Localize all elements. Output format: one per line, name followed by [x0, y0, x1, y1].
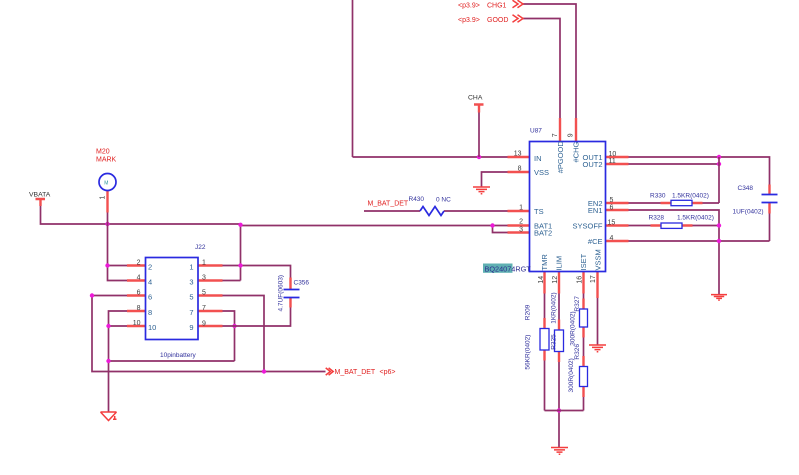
svg-text:1: 1: [100, 196, 107, 200]
svg-text:M_BAT_DET: M_BAT_DET: [335, 369, 376, 376]
svg-text:C348: C348: [738, 185, 754, 192]
svg-text:1: 1: [519, 204, 523, 211]
svg-text:7: 7: [552, 133, 559, 137]
svg-text:1: 1: [202, 260, 206, 267]
svg-text:2: 2: [137, 259, 141, 266]
resistor R328 body: [661, 223, 682, 228]
pin stub M20: [106, 191, 108, 213]
ground VSS net: [473, 187, 490, 194]
svg-text:IN: IN: [534, 154, 542, 163]
svg-text:1UF(0402): 1UF(0402): [733, 208, 764, 215]
wire J22 pin7 down: [223, 311, 235, 361]
svg-text:M_BAT_DET: M_BAT_DET: [368, 200, 409, 207]
svg-text:VSS: VSS: [534, 168, 549, 177]
svg-text:TS: TS: [534, 207, 544, 216]
svg-text:J22: J22: [195, 244, 206, 251]
svg-text:3: 3: [189, 277, 193, 286]
svg-text:CHG1: CHG1: [487, 3, 507, 10]
marker M20 circle: [99, 174, 116, 191]
svg-text:10: 10: [609, 151, 617, 158]
capacitor C356 plates: [284, 290, 300, 298]
wire CE to C348 bottom: [719, 240, 770, 242]
node CE gnd: [717, 239, 721, 243]
wire J22 pin5 down to M_BAT_DET: [223, 296, 265, 372]
svg-text:6: 6: [137, 289, 141, 296]
resistor R330 body: [671, 200, 692, 205]
node OUT1: [717, 155, 721, 159]
pin stubs U87 top: #PGOOD #CHG: [560, 118, 576, 142]
svg-text:3: 3: [202, 275, 206, 282]
node IN/CHA junction: [477, 155, 481, 159]
svg-text:2: 2: [148, 262, 152, 271]
svg-text:9: 9: [568, 133, 575, 137]
svg-text:M: M: [104, 180, 108, 186]
svg-text:2: 2: [519, 219, 523, 226]
svg-text:7: 7: [202, 305, 206, 312]
wire CHG1 net: [523, 4, 576, 118]
wire J22 pin10 link: [109, 325, 128, 327]
wire J22 pin1 to C356 top: [223, 266, 291, 278]
wire J22 pin6 to M_BAT_DET run: [92, 296, 326, 372]
svg-text:#PGOOD: #PGOOD: [556, 141, 565, 174]
op-amp U87 body BQ24074: [530, 142, 606, 272]
pin leads R325: [558, 320, 560, 363]
svg-text:BAT2: BAT2: [534, 229, 552, 238]
node bus M20: [105, 222, 109, 226]
resistor R430 zigzag: [420, 207, 444, 216]
svg-text:MARK: MARK: [96, 157, 117, 164]
wire EN2 link: [629, 202, 661, 204]
svg-text:5: 5: [202, 290, 206, 297]
pin leads C356: [289, 278, 291, 308]
svg-text:6: 6: [610, 205, 614, 212]
svg-text:4: 4: [137, 274, 141, 281]
svg-text:10pinbattery: 10pinbattery: [160, 352, 197, 359]
svg-text:R327: R327: [574, 296, 581, 312]
pin stubs U87 bottom: TMR ILIM ISET VSSM: [545, 272, 598, 298]
pin leads R326: [582, 356, 584, 397]
wire J22 pin8 to ground: [109, 311, 128, 412]
svg-text:4: 4: [148, 277, 152, 286]
wire OUT pullup vertical: [703, 157, 720, 203]
node J22 pin2: [105, 263, 109, 267]
svg-text:VSSM: VSSM: [594, 249, 603, 270]
svg-text:ISET: ISET: [579, 253, 588, 270]
svg-text:13: 13: [514, 150, 522, 157]
net arrow M_BAT_DET: [326, 368, 334, 375]
svg-text:<p3.9>: <p3.9>: [458, 2, 480, 9]
wire SYSOFF links: [629, 225, 720, 227]
svg-text:R328: R328: [649, 215, 665, 222]
svg-text:SYSOFF: SYSOFF: [572, 222, 602, 231]
svg-text:3: 3: [519, 227, 523, 234]
svg-text:4.7UF(0603): 4.7UF(0603): [278, 275, 285, 312]
node BAT1: [490, 223, 494, 227]
node OUT2: [717, 162, 721, 166]
pin leads R327: [582, 299, 584, 338]
wire VSS to ground: [482, 172, 508, 187]
pin leads C348: [768, 185, 770, 214]
net arrow GOOD: [513, 15, 524, 23]
svg-text:1: 1: [189, 262, 193, 271]
node gnd bus: [106, 359, 110, 363]
svg-text:8: 8: [148, 308, 152, 317]
svg-text:9: 9: [189, 323, 193, 332]
pin stubs U87 left: IN VSS TS BAT1 BAT2: [508, 157, 531, 233]
wire bottom resistor bus: [545, 410, 584, 412]
capacitor C348 plates: [762, 195, 778, 203]
wire VBATA bus right to BAT1: [241, 225, 493, 227]
svg-text:1KR(0402): 1KR(0402): [551, 292, 558, 323]
pin stubs J22 right: [198, 266, 223, 327]
wire TS left of R430: [364, 210, 420, 212]
svg-text:BQ24074RGT: BQ24074RGT: [485, 265, 532, 274]
svg-text:17: 17: [590, 275, 597, 283]
svg-text:#CHG: #CHG: [572, 141, 581, 162]
wire J22 pin3 link: [223, 280, 241, 282]
svg-text:300R(0402): 300R(0402): [568, 358, 575, 392]
label part number BQ24074RGT highlighted: [483, 264, 513, 273]
svg-text:5: 5: [610, 197, 614, 204]
svg-text:R430: R430: [409, 196, 425, 203]
node pin1: [238, 263, 242, 267]
wire M20 drop through bus to J22 pin4: [108, 213, 128, 281]
pin stubs U87 right: OUT1 OUT2 EN2 EN1 SYSOFF #CE: [606, 157, 629, 241]
wire IN net horizontal to U87: [353, 156, 508, 158]
wire OUT2: [629, 163, 720, 165]
svg-text:M20: M20: [96, 149, 110, 156]
wire VSSM column: [597, 298, 599, 345]
svg-text:VBATA: VBATA: [29, 191, 51, 198]
wire GOOD net: [523, 19, 560, 119]
resistor R326 body: [580, 367, 588, 387]
svg-text:1.5KR(0402): 1.5KR(0402): [672, 192, 709, 199]
svg-text:CHA: CHA: [468, 94, 483, 101]
svg-text:10: 10: [133, 320, 141, 327]
svg-text:R326: R326: [574, 344, 581, 360]
pin VBATA T-connector: [36, 199, 46, 206]
svg-text:OUT2: OUT2: [582, 160, 602, 169]
svg-text:1.5KR(0402): 1.5KR(0402): [677, 215, 714, 222]
svg-text:7: 7: [189, 308, 193, 317]
node SYSOFF R328: [717, 223, 721, 227]
pin CHA T-connector: [474, 105, 484, 113]
net arrow CHG1: [513, 0, 524, 8]
svg-text:5: 5: [189, 292, 193, 301]
wire gnd bus horizontal pins7-8: [109, 360, 235, 362]
resistor R209 body: [540, 329, 549, 351]
svg-text:56KR(0402): 56KR(0402): [525, 335, 532, 370]
svg-text:4: 4: [610, 235, 614, 242]
svg-text:12: 12: [552, 276, 559, 284]
svg-text:6: 6: [148, 292, 152, 301]
svg-text:11: 11: [609, 158, 616, 165]
svg-text:R209: R209: [525, 304, 532, 320]
connector J22 body: [146, 258, 199, 340]
svg-text:15: 15: [608, 220, 616, 227]
wire TMR column: [544, 294, 546, 411]
svg-text:TMR: TMR: [540, 254, 549, 271]
svg-text:#CE: #CE: [588, 237, 603, 246]
node pin5 M_BAT_DET junction: [262, 369, 266, 373]
svg-text:U87: U87: [530, 128, 542, 135]
node bus jog: [238, 223, 242, 227]
svg-text:<p3.9>: <p3.9>: [458, 17, 480, 24]
wire ILIM column: [558, 294, 560, 448]
pin stubs J22 left: [127, 266, 146, 327]
node pin9 cross: [232, 324, 236, 328]
svg-text:8: 8: [518, 165, 522, 172]
ground TMR/ILIM net: [551, 448, 568, 455]
node ILIM gnd: [557, 408, 561, 412]
pin leads R330: [661, 202, 703, 204]
svg-text:EN1: EN1: [588, 206, 603, 215]
svg-text:300R(0402): 300R(0402): [570, 311, 577, 345]
wire VBATA drop to bus: [41, 206, 241, 224]
resistor R325 body: [555, 330, 564, 352]
pin leads R209: [543, 318, 545, 361]
wire ISET column: [583, 294, 585, 411]
wire OUT1 to C348 top and down: [629, 157, 770, 241]
wire BAT1 BAT2 tie: [493, 226, 508, 233]
svg-text:14: 14: [538, 276, 545, 284]
node pin10: [106, 324, 110, 328]
svg-text:<p6>: <p6>: [380, 369, 396, 376]
svg-text:8: 8: [137, 305, 141, 312]
svg-text:16: 16: [576, 276, 583, 284]
svg-text:R330: R330: [650, 192, 666, 199]
wire CE link: [629, 240, 720, 242]
resistor R327 body: [580, 309, 588, 327]
svg-text:C356: C356: [294, 280, 310, 287]
wire TS right of R430: [444, 210, 508, 212]
wire bus to J22 pins 1,3: [240, 224, 242, 281]
wire EN1 to gnd vertical: [629, 210, 720, 295]
svg-text:R325: R325: [551, 334, 558, 350]
wire J22 pin9 to C356 bottom: [223, 308, 291, 327]
svg-text:10: 10: [148, 323, 156, 332]
ground #CE net: [711, 295, 727, 301]
wire CHA vertical: [478, 113, 480, 158]
svg-text:GOOD: GOOD: [487, 17, 508, 24]
node pin6 corner: [90, 293, 94, 297]
ground VSSM net: [589, 345, 606, 352]
wire IN net vertical from top: [352, 0, 354, 157]
ground earth triangle M20 net: [101, 412, 117, 421]
wire J22 pin2 link: [108, 265, 128, 267]
svg-text:0 NC: 0 NC: [436, 196, 451, 203]
svg-text:9: 9: [202, 321, 206, 328]
svg-text:ILIM: ILIM: [555, 256, 564, 271]
pin leads R328: [651, 224, 693, 226]
